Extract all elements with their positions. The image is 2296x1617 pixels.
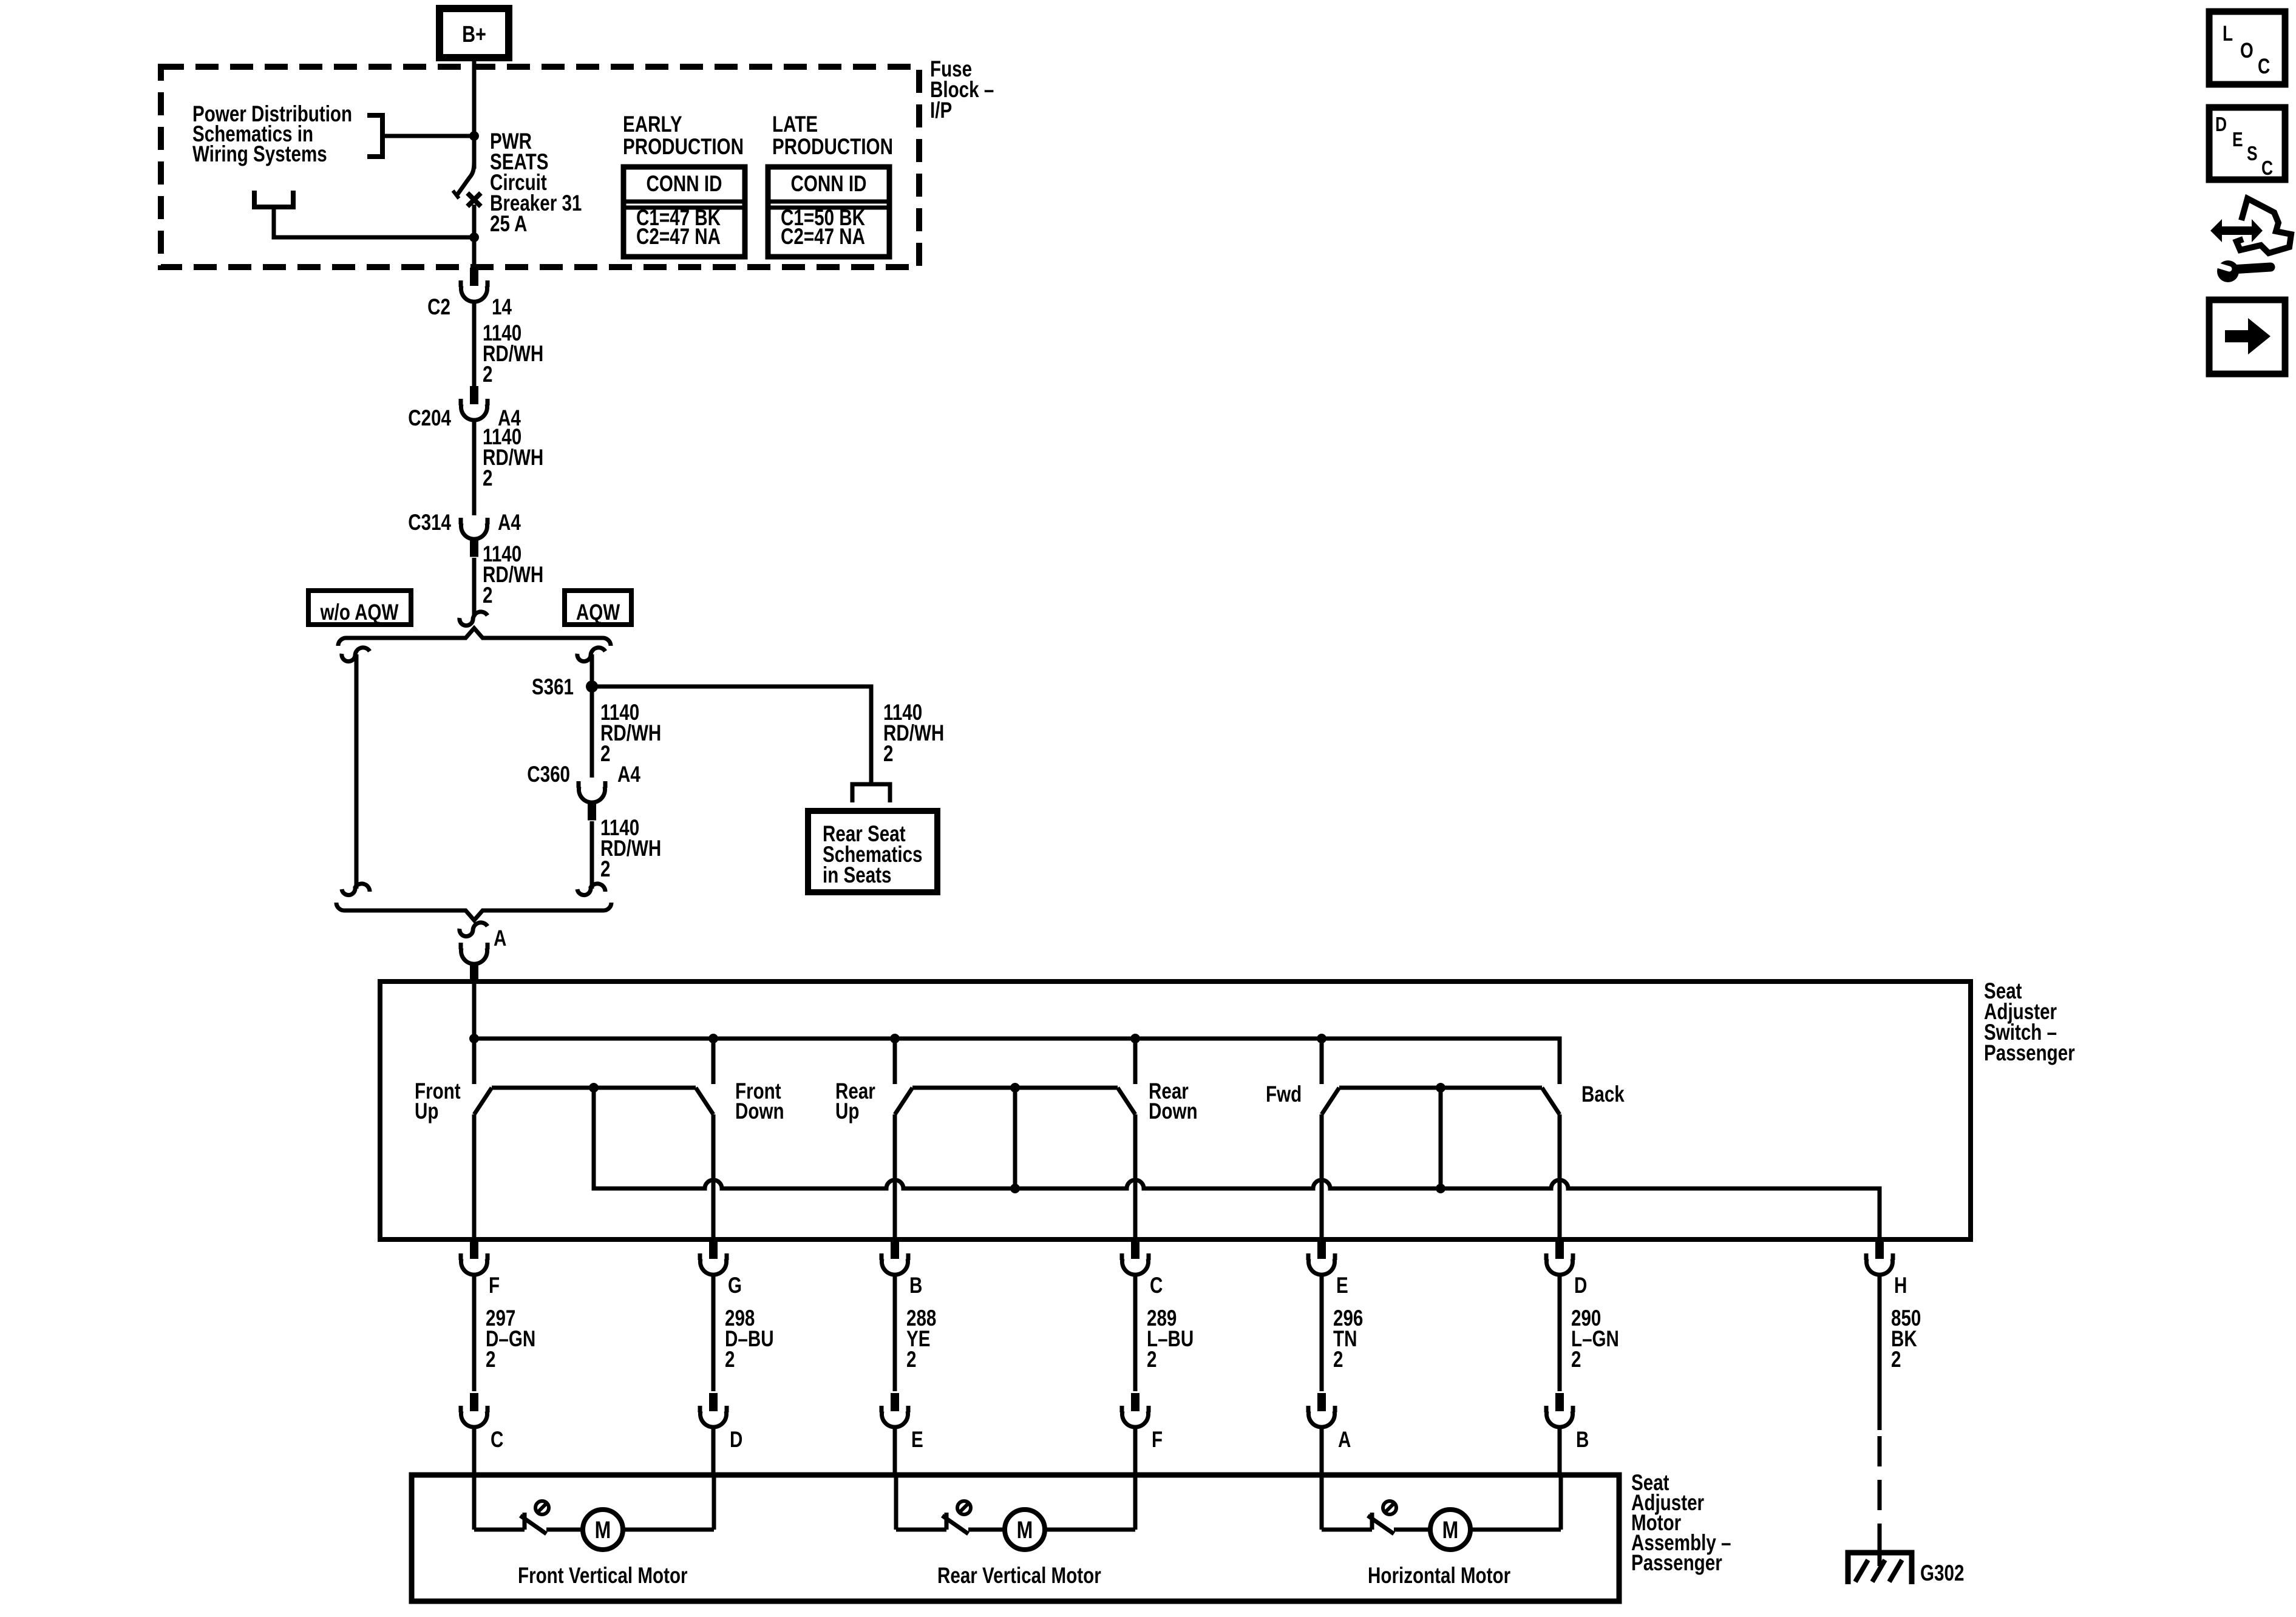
svg-text:B: B — [909, 1273, 922, 1298]
icon DESC — [2209, 107, 2285, 180]
svg-text:C2=47 NA: C2=47 NA — [636, 225, 721, 249]
svg-text:C360: C360 — [527, 762, 570, 787]
connector motor pin B — [1546, 1393, 1573, 1427]
label pin B — [909, 1273, 922, 1298]
svg-text:AQW: AQW — [576, 600, 620, 625]
label Seat Adjuster Motor Assembly - Passenger — [1631, 1471, 1731, 1576]
label pin C — [1150, 1273, 1163, 1298]
svg-text:Horizontal Motor: Horizontal Motor — [1368, 1564, 1510, 1588]
svg-text:C: C — [491, 1428, 503, 1453]
svg-text:PRODUCTION: PRODUCTION — [623, 135, 744, 160]
svg-text:Rear Vertical Motor: Rear Vertical Motor — [937, 1564, 1101, 1588]
label Power Distribution Schematics in Wiring Systems — [192, 102, 352, 167]
switch Front Up / Front Down — [474, 1039, 713, 1239]
svg-text:Passenger: Passenger — [1984, 1041, 2075, 1066]
wire into motor assembly A — [1320, 1429, 1324, 1476]
wire 297 D–GN — [472, 1276, 477, 1391]
wire label 1140 RD/WH 2 (1) — [483, 321, 543, 387]
icon adjust service — [2210, 198, 2291, 282]
connector switch pin E — [1308, 1241, 1335, 1275]
node bus Rear Up — [890, 1034, 900, 1043]
wire 296 TN — [1320, 1276, 1324, 1391]
label motor pin F — [1152, 1428, 1163, 1453]
connector C360 — [579, 781, 605, 821]
table EARLY CONN ID — [623, 167, 745, 257]
svg-text:D: D — [730, 1428, 742, 1453]
circuit breaker 31 — [453, 136, 481, 237]
svg-text:F: F — [1152, 1428, 1163, 1453]
svg-text:C204: C204 — [408, 406, 451, 431]
connector motor pin A — [1308, 1393, 1335, 1427]
connector C204 — [461, 386, 487, 420]
label pin H — [1894, 1273, 1907, 1298]
label motor pin C — [491, 1428, 503, 1453]
wire label 1140 RD/WH 2 (3) — [483, 542, 543, 608]
svg-text:Passenger: Passenger — [1631, 1551, 1722, 1576]
label Front Up — [415, 1079, 461, 1124]
wire label 1140 RD/WH 2 (branch) — [883, 700, 944, 767]
wire 289 L–BU — [1133, 1276, 1138, 1391]
svg-text:2: 2 — [725, 1347, 735, 1372]
svg-text:E: E — [911, 1428, 923, 1453]
wire AQW branch upper — [577, 648, 605, 686]
svg-text:C: C — [2258, 54, 2270, 78]
wire w/o AQW branch — [342, 648, 370, 895]
connector A — [460, 923, 487, 982]
svg-text:CONN ID: CONN ID — [791, 172, 867, 197]
svg-text:C2=47 NA: C2=47 NA — [781, 225, 865, 249]
wire into motor assembly E — [893, 1429, 897, 1476]
wire C360 to merge brace — [577, 821, 605, 895]
option merge brace — [336, 903, 611, 920]
wire 850 BK dashed — [1878, 1436, 1882, 1543]
connector switch pin H — [1866, 1241, 1893, 1275]
wire end curl above brace — [460, 612, 487, 626]
svg-text:2: 2 — [483, 466, 492, 491]
svg-text:25 A: 25 A — [490, 212, 527, 237]
wire label 298 D–BU 2 — [725, 1306, 774, 1372]
svg-text:S361: S361 — [532, 675, 574, 700]
svg-text:Back: Back — [1581, 1082, 1625, 1107]
svg-text:F: F — [489, 1273, 500, 1298]
label Back — [1581, 1082, 1625, 1107]
connector motor pin F — [1122, 1393, 1149, 1427]
svg-text:2: 2 — [883, 742, 893, 767]
node bus Fwd — [1317, 1034, 1326, 1043]
wire 298 D–BU — [712, 1276, 716, 1391]
fuse block I/P dashed box — [161, 67, 919, 267]
connector switch pin B — [881, 1241, 908, 1275]
wire label 850 BK 2 — [1891, 1306, 1921, 1372]
connector C314 — [461, 518, 487, 557]
motor Front Vertical Motor — [474, 1476, 714, 1550]
wire label 290 L–GN 2 — [1571, 1306, 1619, 1372]
svg-text:Wiring Systems: Wiring Systems — [192, 142, 327, 167]
switch Rear Up / Rear Down — [895, 1039, 1135, 1239]
label C314 A4 — [408, 510, 521, 535]
bracket power distribution — [367, 115, 382, 157]
svg-text:A: A — [494, 926, 506, 951]
connector switch pin G — [700, 1241, 727, 1275]
svg-text:Up: Up — [835, 1099, 859, 1124]
box Rear Seat Schematics in Seats — [808, 811, 937, 892]
motor Horizontal Motor — [1322, 1476, 1561, 1550]
label G302 — [1920, 1561, 1964, 1586]
connector switch pin D — [1546, 1241, 1573, 1275]
label pin E — [1336, 1273, 1348, 1298]
svg-text:O: O — [2240, 38, 2254, 63]
svg-text:2: 2 — [483, 362, 492, 387]
wire bracket to breaker — [382, 134, 474, 138]
svg-text:A4: A4 — [617, 762, 640, 787]
connector motor pin C — [461, 1393, 487, 1427]
node junction upper — [469, 131, 479, 141]
wire label 289 L–BU 2 — [1147, 1306, 1194, 1372]
wire label 297 D–GN 2 — [486, 1306, 535, 1372]
node bus Front Down — [708, 1034, 718, 1043]
box Seat Adjuster Switch - Passenger — [380, 981, 1971, 1239]
svg-text:2: 2 — [1147, 1347, 1156, 1372]
splice S361 — [586, 680, 598, 693]
svg-text:LATE: LATE — [772, 112, 818, 137]
svg-text:Up: Up — [415, 1099, 438, 1124]
svg-text:in Seats: in Seats — [823, 863, 892, 888]
terminal to rear seat schematics — [852, 784, 890, 802]
icon arrow — [2209, 300, 2285, 374]
icon LOC — [2209, 12, 2285, 84]
svg-text:E: E — [2232, 129, 2243, 151]
label LATE PRODUCTION — [772, 112, 893, 160]
svg-text:G302: G302 — [1920, 1561, 1964, 1586]
node junction lower — [469, 232, 479, 242]
svg-text:CONN ID: CONN ID — [647, 172, 722, 197]
motor Rear Vertical Motor — [896, 1476, 1135, 1550]
switch common lower bus to pin H — [594, 1088, 1880, 1239]
svg-text:2: 2 — [1333, 1347, 1343, 1372]
node bus feed — [469, 1034, 479, 1043]
svg-text:EARLY: EARLY — [623, 112, 682, 137]
label motor pin D — [730, 1428, 742, 1453]
svg-text:C314: C314 — [408, 510, 451, 535]
table LATE CONN ID — [768, 167, 889, 257]
svg-text:B: B — [1576, 1428, 1589, 1453]
svg-text:G: G — [728, 1273, 742, 1298]
svg-text:2: 2 — [600, 857, 610, 882]
label motor pin B — [1576, 1428, 1589, 1453]
wire into motor assembly D — [712, 1429, 716, 1476]
svg-text:D: D — [1574, 1273, 1587, 1298]
wire label 1140 RD/WH 2 (4) — [600, 816, 661, 882]
wire C2 to C204 — [472, 303, 477, 388]
label PWR SEATS Circuit Breaker 31 25 A — [490, 129, 582, 237]
wire lower return — [274, 207, 474, 237]
svg-text:2: 2 — [1571, 1347, 1581, 1372]
wire feed into switch box — [472, 981, 477, 1039]
svg-text:Down: Down — [1149, 1099, 1198, 1124]
wire label 288 YE 2 — [906, 1306, 936, 1372]
label Front Down — [735, 1079, 784, 1124]
switch Fwd / Back — [1322, 1039, 1560, 1239]
wire S361 to C360 — [590, 686, 594, 778]
label box w/o AQW — [308, 591, 411, 625]
wire C314 to option brace — [472, 558, 477, 617]
node bus Rear Down — [1130, 1034, 1140, 1043]
svg-text:M: M — [1017, 1516, 1033, 1544]
label box AQW — [565, 591, 631, 625]
ground G302 — [1848, 1553, 1912, 1584]
wire label 296 TN 2 — [1333, 1306, 1363, 1372]
node lower bus pair2 — [1010, 1184, 1020, 1193]
wire into motor assembly C — [472, 1429, 477, 1476]
label EARLY PRODUCTION — [623, 112, 744, 160]
label S361 — [532, 675, 574, 700]
label motor pin A — [1338, 1428, 1351, 1453]
connector motor pin E — [881, 1393, 908, 1427]
svg-text:2: 2 — [486, 1347, 495, 1372]
svg-text:14: 14 — [492, 295, 512, 320]
wire into motor assembly B — [1558, 1429, 1562, 1476]
wire 850 BK to ground — [1878, 1543, 1882, 1566]
label Rear Up — [835, 1079, 875, 1124]
svg-text:2: 2 — [1891, 1347, 1901, 1372]
wire C204 to C314 — [472, 422, 477, 515]
wire breaker to C2 — [472, 237, 477, 269]
wire 290 L–GN — [1558, 1276, 1562, 1391]
svg-text:I/P: I/P — [930, 98, 952, 123]
label Horizontal Motor — [1368, 1564, 1510, 1588]
svg-text:PRODUCTION: PRODUCTION — [772, 135, 893, 160]
svg-text:Fwd: Fwd — [1266, 1082, 1302, 1107]
label Front Vertical Motor — [518, 1564, 688, 1588]
label C204 A4 — [408, 406, 521, 431]
wire B+ to junction — [472, 58, 477, 136]
box Seat Adjuster Motor Assembly - Passenger — [412, 1475, 1619, 1601]
label connector A — [494, 926, 506, 951]
svg-text:Down: Down — [735, 1099, 784, 1124]
svg-text:M: M — [1442, 1516, 1459, 1544]
connector motor pin D — [700, 1393, 727, 1427]
label pin F — [489, 1273, 500, 1298]
svg-text:C2: C2 — [427, 295, 450, 320]
node lower bus pair3 — [1436, 1184, 1445, 1193]
label motor pin E — [911, 1428, 923, 1453]
option split brace — [338, 628, 611, 646]
svg-text:w/o AQW: w/o AQW — [320, 600, 399, 625]
svg-text:Front Vertical Motor: Front Vertical Motor — [518, 1564, 688, 1588]
bracket lower return — [254, 191, 293, 207]
label C360 A4 — [527, 762, 640, 787]
terminal B+ — [440, 8, 509, 58]
wire 288 YE — [893, 1276, 897, 1391]
wire label 1140 RD/WH 2 (AQW) — [600, 700, 661, 767]
connector switch pin F — [461, 1241, 487, 1275]
svg-text:S: S — [2247, 143, 2258, 164]
wire 850 BK upper — [1878, 1276, 1882, 1430]
label Rear Down — [1149, 1079, 1198, 1124]
connector switch pin C — [1122, 1241, 1149, 1275]
wire label 1140 RD/WH 2 (2) — [483, 425, 543, 491]
wire S361 to rear seat — [592, 686, 871, 784]
label Seat Adjuster Switch - Passenger — [1984, 979, 2075, 1066]
svg-text:2: 2 — [906, 1347, 916, 1372]
connector C2 — [461, 268, 487, 302]
svg-text:C: C — [2261, 157, 2273, 179]
label pin G — [728, 1273, 742, 1298]
svg-text:A4: A4 — [498, 510, 521, 535]
svg-text:B+: B+ — [462, 22, 486, 47]
svg-text:D: D — [2215, 114, 2227, 135]
label C2 14 — [427, 295, 512, 320]
wire into motor assembly F — [1133, 1429, 1138, 1476]
svg-text:2: 2 — [483, 583, 492, 608]
svg-text:2: 2 — [600, 742, 610, 767]
switch feed bus — [474, 1039, 1560, 1084]
svg-text:L: L — [2223, 21, 2233, 46]
label Fuse Block - I/P — [930, 57, 994, 123]
label Rear Vertical Motor — [937, 1564, 1101, 1588]
svg-text:C: C — [1150, 1273, 1163, 1298]
svg-text:H: H — [1894, 1273, 1907, 1298]
label Fwd — [1266, 1082, 1302, 1107]
svg-text:M: M — [595, 1516, 611, 1544]
label pin D — [1574, 1273, 1587, 1298]
svg-text:E: E — [1336, 1273, 1348, 1298]
svg-text:A: A — [1338, 1428, 1351, 1453]
